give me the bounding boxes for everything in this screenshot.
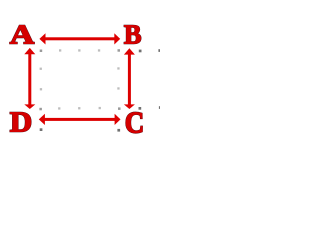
wire bottom D-C double arrow [39,114,121,125]
node A [10,18,35,49]
wire right B-C double arrow [124,48,135,109]
grid dots: faint lattice points [40,49,120,109]
svg-text:D: D [10,107,32,139]
wire top A-B double arrow [39,33,120,44]
node C [125,106,144,140]
grid dots: medium lattice points [39,49,120,110]
node D [10,107,32,139]
wire left A-D double arrow [24,48,35,109]
svg-text:A: A [10,18,35,49]
svg-text:C: C [125,106,144,140]
node B [124,19,142,50]
grid dots: strong lattice points [40,49,160,131]
svg-text:B: B [124,19,142,50]
